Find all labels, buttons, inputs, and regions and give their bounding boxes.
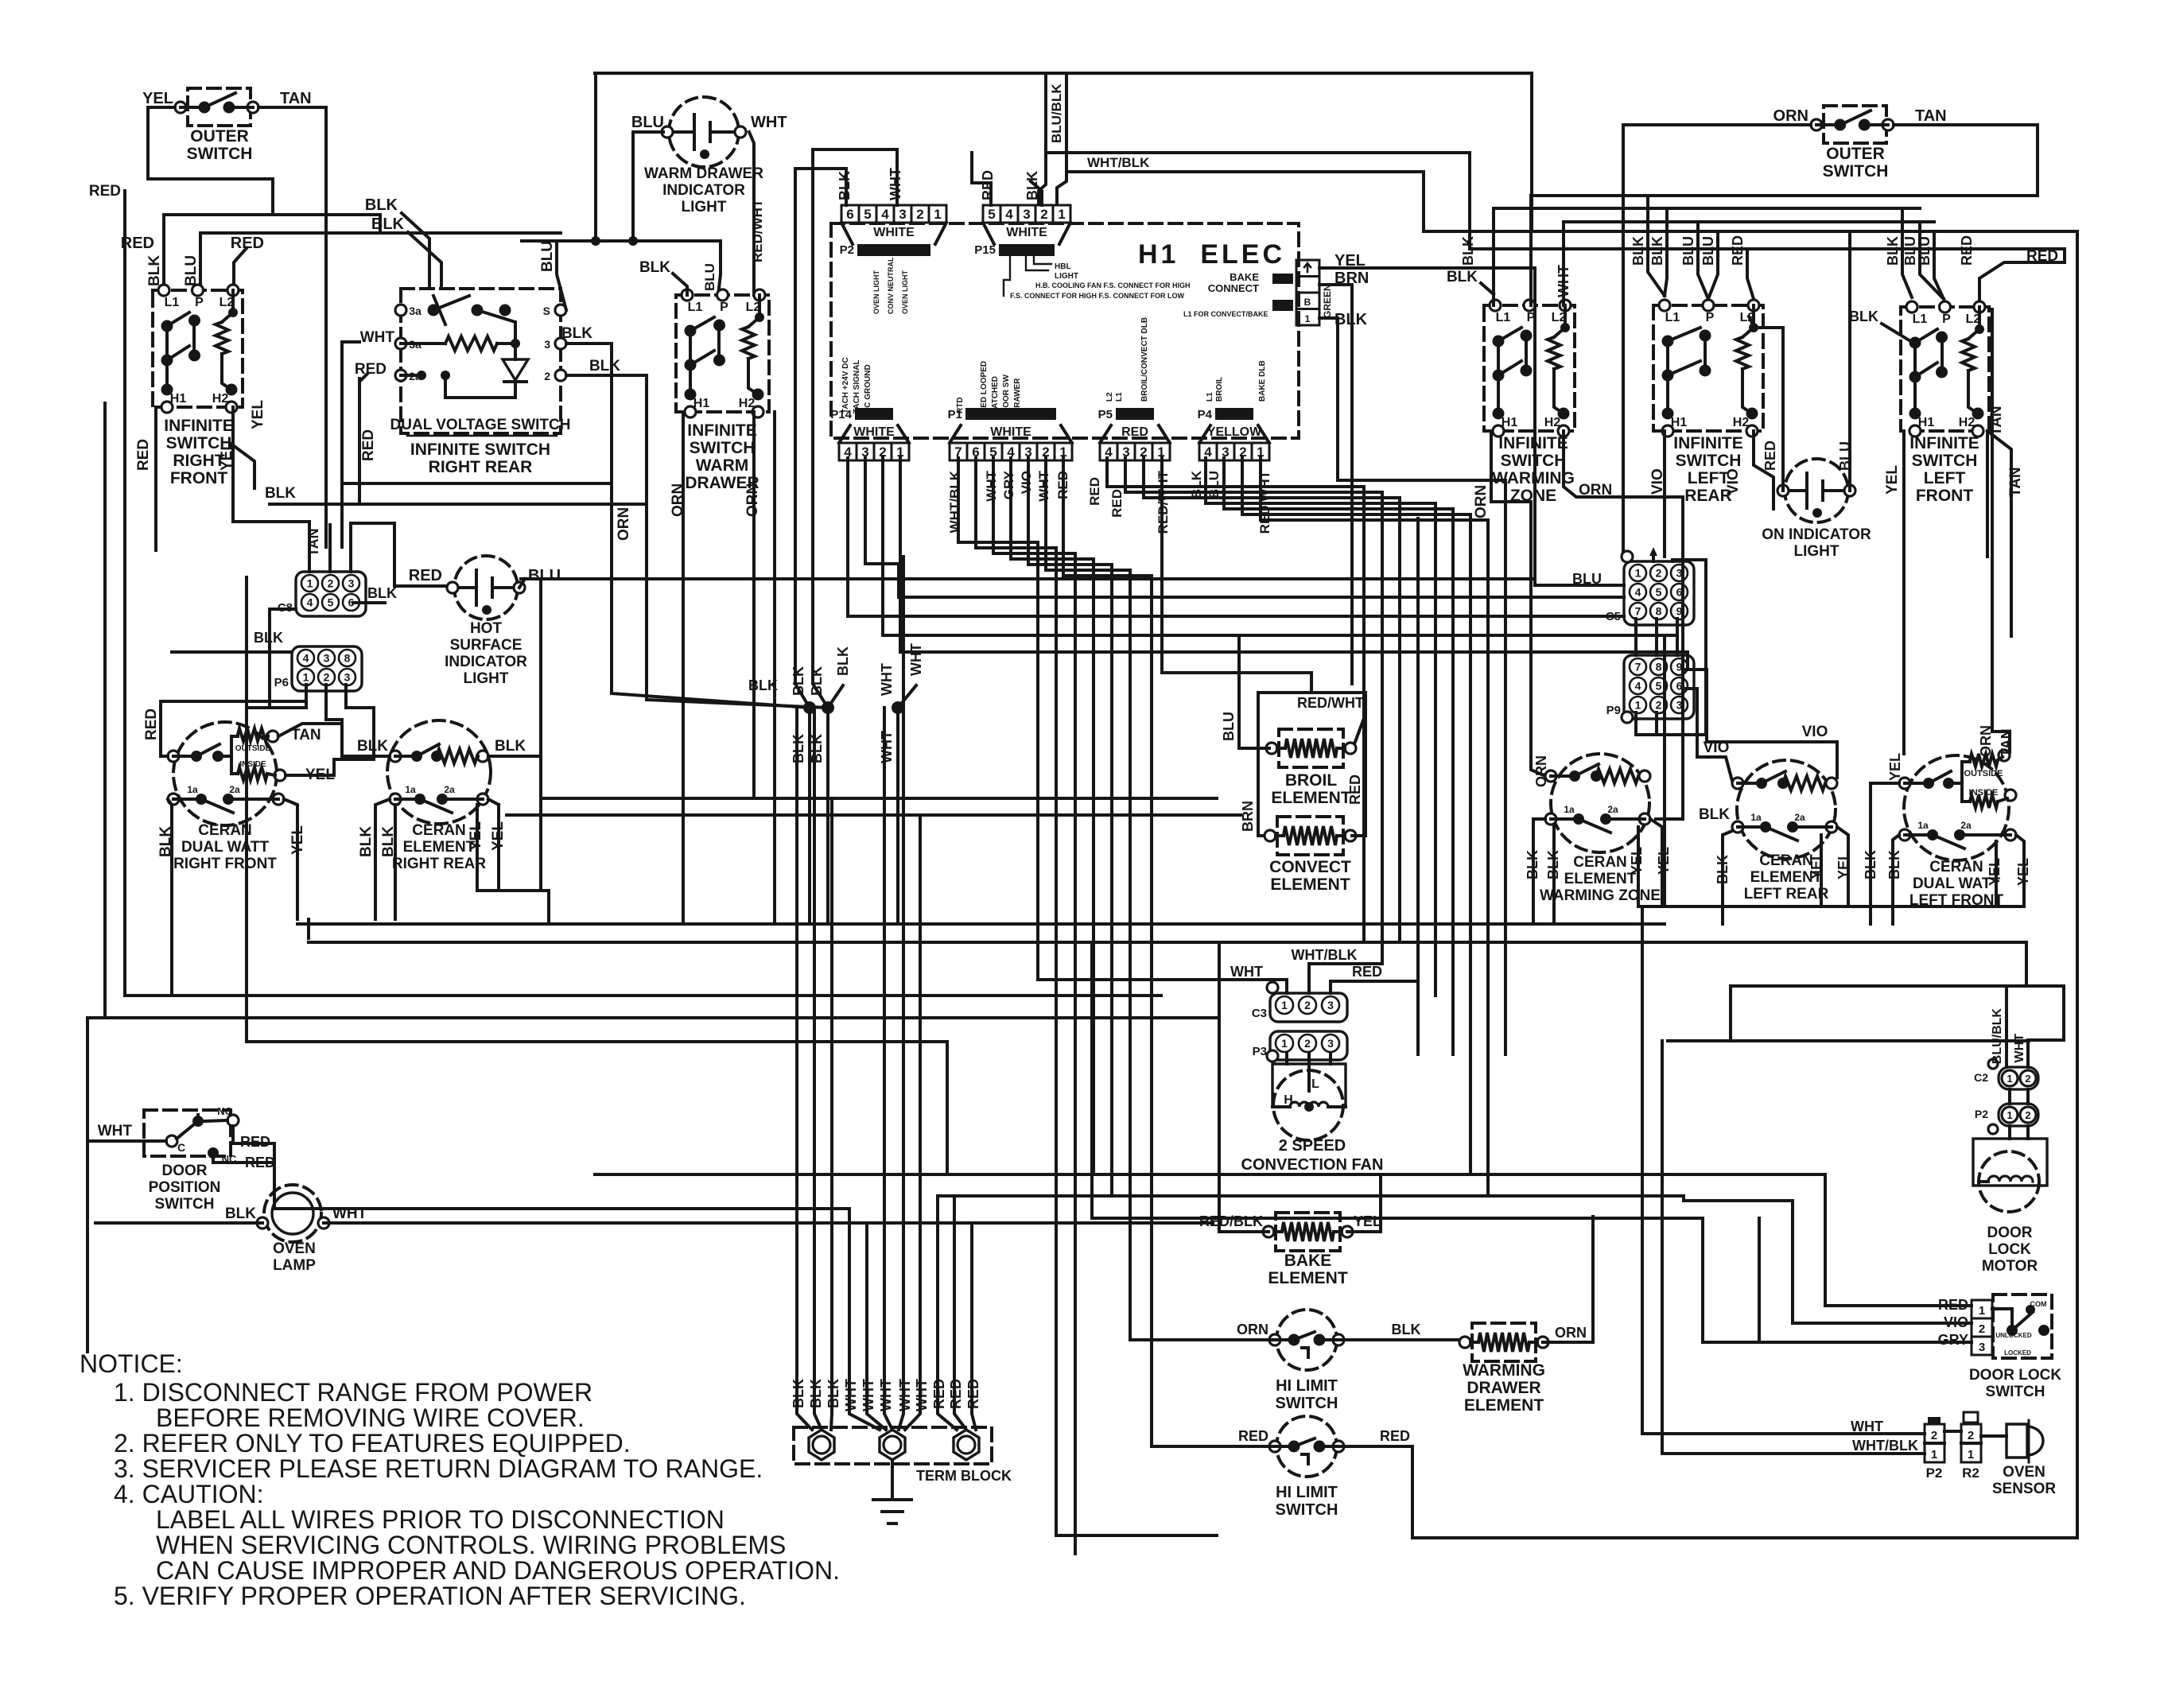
svg-text:RED: RED (1087, 477, 1102, 506)
svg-text:ON INDICATOR: ON INDICATOR (1762, 526, 1871, 543)
svg-text:INSIDE: INSIDE (1969, 788, 1999, 798)
svg-text:F.S. CONNECT FOR HIGH F.S. CON: F.S. CONNECT FOR HIGH F.S. CONNECT FOR L… (1010, 292, 1185, 300)
bake connect green connector (right edge of H1) (1296, 260, 1319, 277)
right section top buses (1531, 194, 2038, 197)
svg-text:BLK: BLK (1447, 269, 1478, 285)
svg-text:BLK: BLK (1649, 236, 1665, 266)
connector C5 (1624, 561, 1694, 625)
svg-text:VIO: VIO (1802, 724, 1828, 740)
wires ceran rr (342, 755, 390, 758)
svg-text:GRY: GRY (1001, 470, 1016, 499)
svg-text:P2: P2 (1926, 1465, 1943, 1481)
svg-text:B: B (1304, 297, 1311, 308)
oven lamp wires (95, 1221, 262, 1225)
svg-text:BLK: BLK (371, 215, 405, 233)
svg-text:BLU: BLU (539, 241, 556, 272)
2 speed convection fan (1273, 1070, 1343, 1140)
svg-text:ORN: ORN (1533, 755, 1549, 787)
svg-text:2: 2 (1931, 1429, 1937, 1442)
bus y303 warm drawer feeds (522, 239, 721, 243)
svg-text:RIGHT: RIGHT (173, 452, 225, 470)
svg-text:L1: L1 (165, 296, 180, 309)
oven sensor bulb (2007, 1424, 2043, 1458)
svg-text:ELEMENT: ELEMENT (1271, 789, 1351, 807)
svg-text:L1: L1 (688, 301, 703, 314)
svg-text:TERM BLOCK: TERM BLOCK (916, 1468, 1012, 1484)
feeds to oven sensor (1641, 906, 1644, 1434)
svg-text:LOCKED: LOCKED (2004, 1349, 2031, 1357)
svg-text:3: 3 (344, 671, 351, 684)
svg-text:BLU: BLU (1221, 712, 1237, 741)
svg-text:SWITCH: SWITCH (1823, 162, 1889, 181)
on indicator light (1785, 459, 1848, 522)
svg-text:TAN: TAN (280, 90, 312, 107)
wire right of hot surface light joins blu bus (519, 579, 525, 588)
wire C8 bottom left down (270, 609, 296, 708)
broil blu feed (1239, 639, 1269, 748)
svg-text:BLK: BLK (561, 325, 592, 342)
svg-text:BLU: BLU (702, 263, 717, 291)
svg-text:BLK: BLK (748, 677, 778, 693)
wire p riser warm drawer switch (718, 241, 721, 295)
svg-text:DOOR SW: DOOR SW (1002, 375, 1011, 413)
connector P9 (1624, 655, 1694, 719)
svg-text:WHITE: WHITE (1006, 226, 1047, 239)
H1 ELEC control board (831, 223, 1299, 438)
outer switch (right) (1824, 106, 1886, 143)
svg-text:SENSOR: SENSOR (1992, 1481, 2057, 1497)
bake element (1276, 1213, 1340, 1251)
wire blu left of warm drawer light (633, 132, 663, 241)
svg-text:1: 1 (1281, 1037, 1288, 1050)
svg-text:1: 1 (1305, 313, 1311, 324)
svg-text:SURFACE: SURFACE (450, 637, 523, 654)
blu/blk wht connector C2 (1999, 1067, 2038, 1089)
svg-text:3: 3 (899, 207, 906, 222)
svg-text:HBL: HBL (1055, 262, 1071, 271)
ceran element warming zone (1551, 754, 1649, 852)
svg-text:WHT: WHT (879, 663, 895, 696)
left vertical bus x110 (86, 1018, 89, 1352)
wires ceran left rear (1683, 670, 1837, 778)
svg-text:P: P (1942, 312, 1951, 326)
svg-text:SWITCH: SWITCH (1986, 1384, 2045, 1400)
svg-text:FRONT: FRONT (170, 469, 227, 487)
svg-text:H1: H1 (170, 392, 187, 406)
svg-text:BLU: BLU (528, 567, 561, 584)
svg-text:WARMING ZONE: WARMING ZONE (1540, 887, 1661, 904)
svg-text:TACH +24V DC: TACH +24V DC (841, 357, 850, 413)
svg-text:WHT: WHT (908, 643, 924, 676)
svg-text:TACH SIGNAL: TACH SIGNAL (853, 359, 861, 413)
svg-text:BLK: BLK (1392, 1322, 1421, 1337)
ground symbol (891, 1460, 894, 1500)
oven sensor connectors (1925, 1424, 1944, 1462)
blu/blk vertical pair (1039, 73, 1046, 204)
svg-text:SWITCH: SWITCH (690, 439, 756, 457)
svg-text:WHT/BLK: WHT/BLK (947, 470, 962, 533)
svg-text:WHEN SERVICING CONTROLS. WIRIN: WHEN SERVICING CONTROLS. WIRING PROBLEMS (156, 1531, 786, 1559)
svg-text:3: 3 (348, 577, 355, 590)
svg-text:1: 1 (1931, 1448, 1937, 1462)
svg-text:BLK: BLK (1460, 236, 1476, 266)
svg-text:C3: C3 (1252, 1007, 1267, 1020)
svg-text:LAMP: LAMP (273, 1257, 316, 1274)
wire yel left of outer switch (148, 107, 273, 215)
svg-text:L1: L1 (1206, 392, 1214, 402)
svg-text:OUTER: OUTER (190, 127, 249, 146)
svg-text:ORN: ORN (1773, 107, 1808, 125)
svg-text:L: L (1311, 1077, 1319, 1091)
connector P15 (top) (983, 205, 1000, 223)
svg-text:NO: NO (217, 1105, 233, 1117)
c5 risers and right elbow (1652, 552, 1655, 561)
svg-text:RED/WHT: RED/WHT (1297, 695, 1364, 711)
svg-text:1: 1 (1979, 1304, 1985, 1318)
svg-text:C2: C2 (1974, 1071, 1988, 1084)
hot surface indicator light (454, 556, 518, 619)
svg-text:RED: RED (1959, 235, 1975, 266)
svg-text:4: 4 (1635, 586, 1641, 599)
wires between C5 and P9 (1634, 619, 1637, 655)
wires ceran dual watt lf (1871, 783, 1899, 924)
oven lamp (272, 1193, 313, 1234)
svg-text:L1: L1 (1913, 312, 1928, 326)
svg-text:DC GROUND: DC GROUND (864, 364, 872, 413)
svg-text:P: P (720, 301, 728, 314)
svg-text:2a: 2a (1960, 820, 1972, 831)
svg-text:INFINITE: INFINITE (687, 421, 757, 440)
svg-text:RED: RED (409, 567, 442, 584)
svg-text:RED LOOPED: RED LOOPED (980, 361, 989, 413)
svg-text:2: 2 (1968, 1429, 1974, 1442)
bundle wire from green connector blk (1338, 480, 1505, 1054)
svg-text:ORN: ORN (616, 507, 632, 541)
svg-text:BLK: BLK (589, 358, 620, 375)
connector P1 (bottom) (950, 443, 967, 460)
svg-text:RED/BLK: RED/BLK (1199, 1213, 1263, 1229)
svg-text:OVEN LIGHT: OVEN LIGHT (872, 270, 880, 314)
right lower region wires (1638, 905, 2024, 908)
svg-text:GRY: GRY (1938, 1332, 1968, 1348)
dual watt lf lower switch (1899, 829, 1910, 840)
svg-text:H1: H1 (1671, 416, 1688, 429)
svg-text:4: 4 (1635, 680, 1641, 693)
svg-text:RIGHT FRONT: RIGHT FRONT (173, 856, 277, 872)
svg-text:BLK: BLK (1189, 470, 1204, 499)
svg-text:DRAWER: DRAWER (1013, 378, 1022, 413)
left vertical bus x157 (123, 191, 126, 996)
svg-text:1: 1 (1281, 999, 1288, 1011)
svg-text:2 SPEED: 2 SPEED (1279, 1137, 1346, 1155)
svg-text:BLK: BLK (146, 255, 163, 286)
svg-text:RED/WHT: RED/WHT (750, 199, 765, 262)
svg-text:YEL: YEL (1887, 753, 1903, 781)
svg-text:ELEMENT: ELEMENT (1564, 871, 1637, 887)
svg-text:BLK: BLK (639, 259, 670, 276)
node blu drop P (199, 233, 202, 290)
connector C8 (296, 572, 366, 616)
svg-text:2: 2 (2025, 1109, 2030, 1121)
svg-text:BLK: BLK (1699, 806, 1730, 823)
svg-text:1: 1 (934, 207, 941, 222)
svg-text:LIGHT: LIGHT (682, 199, 727, 215)
svg-text:3: 3 (544, 338, 550, 351)
wire C8 pin3 to hot surface light (351, 523, 450, 586)
svg-text:RED: RED (1238, 1428, 1268, 1444)
door lock switch (1993, 1295, 2052, 1358)
svg-text:WHT/BLK: WHT/BLK (1087, 155, 1150, 170)
svg-text:RED: RED (89, 183, 121, 200)
svg-text:H1: H1 (693, 397, 710, 410)
svg-text:LIGHT: LIGHT (1794, 543, 1839, 560)
svg-text:WHT: WHT (360, 329, 395, 346)
svg-text:LABEL ALL WIRES PRIOR TO DISCO: LABEL ALL WIRES PRIOR TO DISCONNECTION (156, 1505, 725, 1534)
svg-text:1a: 1a (1750, 812, 1762, 823)
p9 bottom stubs (1636, 712, 1706, 735)
svg-text:5: 5 (328, 596, 334, 609)
svg-text:H1: H1 (1918, 416, 1935, 429)
svg-text:BROIL: BROIL (1285, 771, 1338, 790)
svg-text:1: 1 (2007, 1073, 2012, 1085)
svg-text:1a: 1a (1564, 804, 1575, 815)
wires below P6 (247, 685, 306, 708)
svg-text:2a: 2a (1607, 804, 1618, 815)
svg-text:RED: RED (1347, 774, 1363, 805)
svg-text:BLK: BLK (265, 485, 296, 502)
svg-text:CERAN: CERAN (1929, 859, 1983, 875)
infinite switch left front (1901, 307, 1989, 431)
svg-text:WHT: WHT (1230, 964, 1263, 980)
ceran dual watt right front (173, 722, 277, 825)
door lock switch feed wires (1825, 1304, 1972, 1307)
svg-text:L1 FOR CONVECT/BAKE: L1 FOR CONVECT/BAKE (1183, 310, 1268, 318)
svg-text:P4: P4 (1198, 408, 1213, 421)
svg-text:INFINITE SWITCH: INFINITE SWITCH (410, 441, 550, 459)
svg-text:BLK: BLK (367, 585, 397, 601)
svg-text:BLK: BLK (254, 630, 283, 646)
svg-text:LIGHT: LIGHT (464, 670, 509, 687)
svg-text:9: 9 (1676, 605, 1683, 618)
svg-text:WHITE: WHITE (873, 226, 915, 239)
svg-text:BLK: BLK (365, 196, 398, 214)
wires P2 to door lock motor (2008, 1126, 2011, 1139)
bus row y608 (342, 482, 612, 485)
svg-text:H1 ELEC: H1 ELEC (1138, 239, 1285, 270)
P3 connector (1270, 1031, 1347, 1060)
svg-text:YEL: YEL (1354, 1213, 1381, 1229)
svg-text:LEFT REAR: LEFT REAR (1744, 886, 1829, 903)
main lower buses (297, 922, 1665, 926)
svg-text:BROIL/CONVECT DLB: BROIL/CONVECT DLB (1140, 317, 1149, 402)
hi limit switch 2 (1276, 1416, 1337, 1477)
svg-text:WHT: WHT (984, 470, 999, 501)
svg-text:SWITCH: SWITCH (155, 1196, 215, 1213)
svg-text:BROIL: BROIL (1215, 377, 1224, 402)
svg-text:1: 1 (1635, 699, 1641, 712)
svg-text:SWITCH: SWITCH (1676, 452, 1742, 470)
svg-text:7: 7 (1635, 661, 1641, 673)
svg-text:CONV NEUTRAL: CONV NEUTRAL (887, 257, 895, 314)
P14 pin wires routed right as interconnect buses (848, 458, 1624, 616)
wires ceran warming zone (1533, 819, 1545, 924)
svg-text:H2: H2 (1959, 416, 1975, 429)
junction blk/wht fan-in above bundle (803, 701, 816, 714)
infinite switch right front (153, 290, 243, 407)
wire wht right of warm drawer light (749, 132, 754, 295)
svg-text:DUAL WATT: DUAL WATT (181, 839, 270, 856)
svg-text:RED: RED (360, 429, 377, 461)
svg-text:BLU: BLU (183, 255, 200, 286)
svg-text:ELEMENT: ELEMENT (1270, 875, 1350, 894)
svg-text:P2: P2 (840, 243, 854, 257)
svg-text:TAN: TAN (1915, 107, 1947, 125)
wire H2 down (233, 407, 254, 488)
feed lines to door lock connector (1731, 984, 2064, 988)
svg-text:BLU: BLU (1206, 471, 1222, 499)
door lock motor (1973, 1139, 2047, 1186)
svg-text:WHT/BLK: WHT/BLK (1292, 947, 1358, 963)
svg-text:2: 2 (916, 207, 923, 222)
svg-text:S: S (543, 305, 550, 317)
svg-text:P9: P9 (1606, 704, 1621, 717)
svg-text:LOCK: LOCK (1988, 1241, 2031, 1258)
connector P4 (bottom) (1199, 443, 1217, 460)
svg-text:INFINITE: INFINITE (1909, 434, 1979, 452)
svg-text:DOOR LOCK: DOOR LOCK (1969, 1367, 2061, 1384)
svg-text:OVEN: OVEN (2003, 1464, 2045, 1481)
svg-text:VIO: VIO (1725, 468, 1742, 495)
svg-text:RTD: RTD (956, 397, 965, 413)
svg-text:OUTSIDE: OUTSIDE (235, 744, 271, 753)
svg-text:RED: RED (980, 170, 996, 200)
svg-text:3: 3 (1327, 999, 1334, 1011)
buses at 1477/1504 (595, 1173, 1825, 1176)
svg-text:BLU/BLK: BLU/BLK (1991, 1008, 2004, 1065)
svg-text:CERAN: CERAN (412, 822, 466, 839)
ceran element right rear (387, 720, 491, 824)
connector P2 (top) (841, 205, 859, 223)
svg-text:LEFT: LEFT (1688, 469, 1730, 487)
svg-text:WHT/BLK: WHT/BLK (1852, 1438, 1918, 1454)
svg-text:ORN: ORN (1237, 1322, 1268, 1337)
mid horizontal buses (541, 797, 1217, 800)
dual voltage switch / infinite switch right rear (401, 289, 561, 433)
svg-text:CERAN: CERAN (1759, 852, 1813, 869)
svg-text:RIGHT REAR: RIGHT REAR (392, 856, 487, 872)
svg-text:WHITE: WHITE (990, 425, 1031, 439)
svg-text:R2: R2 (1962, 1465, 1979, 1481)
p2 connector columns down to junctions (795, 205, 810, 924)
hi limit switch 1 (1276, 1310, 1337, 1370)
svg-text:ELEMENT: ELEMENT (1268, 1269, 1348, 1287)
svg-text:MOTOR: MOTOR (1982, 1258, 2038, 1275)
P2 connector (door lock) (1999, 1104, 2038, 1126)
svg-text:8: 8 (1656, 661, 1662, 673)
brn vertical (1258, 693, 1269, 836)
P5/P4 pin wires jog right into bundle (1107, 458, 1364, 942)
svg-text:UNLOCKED: UNLOCKED (1995, 1332, 2032, 1339)
svg-text:BLU: BLU (631, 114, 664, 131)
svg-text:BAKE DLB: BAKE DLB (1258, 360, 1267, 402)
svg-text:BLK: BLK (357, 738, 388, 755)
svg-text:OVEN: OVEN (273, 1240, 316, 1257)
svg-text:1a: 1a (187, 784, 198, 795)
svg-text:NOTICE:: NOTICE: (80, 1349, 183, 1378)
infinite switch left rear (1653, 305, 1763, 431)
svg-text:WHT: WHT (751, 114, 787, 131)
svg-text:H1: H1 (1502, 416, 1518, 429)
svg-text:2a: 2a (229, 784, 240, 795)
wire tan into C8 pin2 (328, 525, 332, 572)
svg-text:ORN: ORN (1555, 1325, 1587, 1341)
term block (794, 1427, 992, 1464)
svg-text:BLK: BLK (358, 826, 375, 857)
svg-text:YEL: YEL (1884, 465, 1901, 495)
broil element (1279, 729, 1343, 767)
warm drawer indicator light (669, 97, 739, 167)
svg-text:L1: L1 (1115, 392, 1124, 402)
left front risers (1902, 208, 1912, 297)
svg-text:P5: P5 (1098, 408, 1113, 421)
svg-text:SWITCH: SWITCH (1276, 1395, 1338, 1412)
svg-text:WHT: WHT (1036, 470, 1051, 501)
svg-text:P: P (1706, 311, 1715, 324)
svg-text:HI LIMIT: HI LIMIT (1276, 1484, 1338, 1501)
svg-text:L1: L1 (1665, 311, 1680, 324)
svg-text:1. DISCONNECT RANGE FROM POWER: 1. DISCONNECT RANGE FROM POWER (114, 1378, 592, 1407)
left rear lower switch (1732, 821, 1743, 833)
svg-text:H2: H2 (1544, 416, 1561, 429)
red/wht loop (1258, 691, 1366, 694)
svg-text:BLK: BLK (225, 1205, 256, 1222)
svg-text:WARM DRAWER: WARM DRAWER (644, 165, 763, 182)
svg-text:2: 2 (1304, 999, 1311, 1011)
svg-text:BLU: BLU (1700, 236, 1716, 266)
svg-text:ORN: ORN (744, 483, 761, 517)
red/wht vertical continues (752, 412, 756, 798)
svg-text:VIO: VIO (1019, 471, 1034, 494)
convect element (1277, 817, 1343, 855)
svg-text:3: 3 (324, 652, 330, 665)
vertical left trunk wires center (1090, 942, 1094, 1218)
svg-text:BAKE: BAKE (1230, 271, 1259, 283)
svg-text:WHT: WHT (98, 1123, 133, 1139)
svg-text:3: 3 (1676, 567, 1683, 580)
svg-text:DOOR: DOOR (162, 1163, 208, 1179)
svg-text:P: P (195, 296, 204, 309)
svg-text:RED: RED (1380, 1428, 1410, 1444)
standalone bundle line 1783 (1416, 518, 1420, 1054)
outer switch right wires (1623, 125, 1811, 560)
svg-text:5: 5 (988, 207, 995, 222)
ceran element left rear (1737, 760, 1836, 859)
wire H1 down (154, 407, 157, 550)
svg-text:COM: COM (2030, 1300, 2047, 1308)
svg-text:C5: C5 (1606, 610, 1621, 623)
open ended cluster wires bottom (1056, 1534, 1217, 1537)
svg-text:BAKE: BAKE (1284, 1252, 1332, 1270)
svg-text:2: 2 (1304, 1037, 1311, 1050)
svg-text:TAN: TAN (291, 727, 321, 743)
svg-text:2: 2 (328, 577, 334, 590)
door position switch (144, 1110, 231, 1156)
svg-text:YEL: YEL (250, 400, 266, 429)
svg-text:SWITCH: SWITCH (1912, 452, 1978, 470)
svg-text:BLU: BLU (1902, 236, 1918, 266)
svg-text:2: 2 (1656, 567, 1662, 580)
svg-text:YEL: YEL (142, 90, 173, 107)
